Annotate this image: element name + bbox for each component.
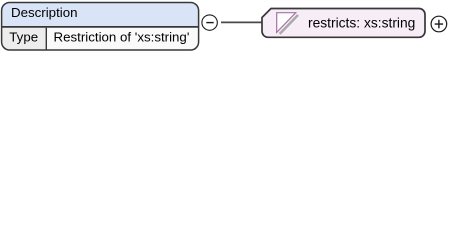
expand (plus) button: [431, 16, 447, 32]
header row background: [1, 2, 199, 27]
Type label cell background: [1, 27, 46, 51]
Type label text: [9, 29, 38, 44]
svg-text:Type: Type: [9, 29, 38, 44]
column divider line: [45, 28, 47, 50]
properties table outline: [2, 2, 199, 50]
restriction icon triangle: [277, 13, 296, 33]
restriction box: [262, 9, 425, 38]
table border: [2, 2, 199, 50]
box label text: [308, 15, 415, 30]
type value text: [54, 29, 190, 44]
svg-text:Restriction of 'xs:string': Restriction of 'xs:string': [54, 29, 190, 44]
connector wire: [221, 21, 263, 23]
header divider line: [1, 26, 199, 28]
collapse (minus) button: [202, 15, 217, 30]
svg-text:Description: Description: [11, 5, 78, 20]
header text Description: [11, 5, 78, 20]
svg-text:restricts: xs:string: restricts: xs:string: [308, 15, 415, 30]
restriction icon shadow: [280, 15, 298, 34]
